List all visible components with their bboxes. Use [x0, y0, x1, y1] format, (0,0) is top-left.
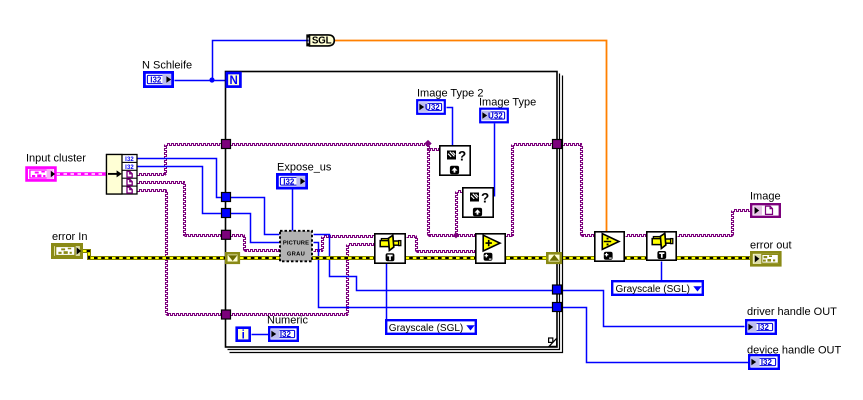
wire image Divide node to Cast node 2	[626, 235, 647, 237]
wire image Add node output to right tunnel T6	[506, 144, 553, 237]
indicator Numeric label	[267, 315, 308, 327]
wire left tunnel T3 to PICTURE GRAU input 2	[231, 214, 280, 243]
wire Cast node type input from enum Grayscale SGL	[386, 264, 388, 320]
svg-text:I32: I32	[125, 165, 134, 171]
wire unbundle row1 to left tunnel T2	[138, 159, 223, 198]
wire Input cluster to unbundle	[57, 172, 107, 176]
wire right tunnel T8 to device handle OUT	[563, 308, 749, 363]
svg-text:SGL: SGL	[312, 36, 332, 47]
svg-text:Numeric: Numeric	[267, 315, 308, 327]
svg-text:Image: Image	[750, 191, 781, 203]
svg-text:?: ?	[481, 191, 489, 206]
SGL conversion constant	[306, 34, 334, 46]
wire image unbundle row5 to left tunnel T5	[138, 190, 223, 316]
indicator driver handle OUT I32	[746, 320, 776, 334]
wire right tunnel T7 to driver handle OUT	[563, 291, 745, 327]
svg-text:I32: I32	[150, 76, 162, 85]
svg-text:N: N	[230, 75, 238, 87]
tunnel T3 handle in (left)	[222, 209, 231, 218]
svg-text:driver handle OUT: driver handle OUT	[747, 306, 837, 318]
svg-text:U32: U32	[425, 103, 440, 112]
IMAQ GetImageType node 1	[440, 146, 470, 175]
svg-text:error out: error out	[750, 240, 792, 252]
wire image PICTURE GRAU output to Cast node input 1	[314, 236, 375, 252]
wire image left tunnel T1 to IMAQ GetImageType node and Add node	[231, 140, 476, 239]
tunnel T2 handle in (left)	[222, 193, 231, 202]
svg-text:I32: I32	[283, 177, 295, 186]
svg-text:U32: U32	[488, 112, 503, 121]
wire error loop to error out	[562, 256, 750, 260]
wire image right tunnel T6 to Divide node	[563, 144, 595, 237]
svg-text:I32: I32	[761, 358, 773, 367]
wire image unbundle row3 to left tunnel T1	[138, 144, 223, 176]
indicator Image Type U32	[480, 109, 508, 123]
control N Schleife label	[142, 60, 192, 72]
svg-text:Image Type 2: Image Type 2	[417, 88, 483, 100]
indicator driver handle OUT label	[747, 306, 837, 318]
wire error through loop body	[240, 256, 546, 260]
svg-text:I32: I32	[758, 323, 770, 332]
subVI PICTURE GRAU	[280, 231, 312, 261]
control error In terminal	[53, 245, 82, 258]
tunnel T1 image in (left)	[222, 140, 231, 149]
indicator device handle OUT I32	[749, 355, 779, 369]
loop resize corner glyph	[549, 338, 557, 346]
wire image Cast node output to Add node input 2	[407, 236, 476, 253]
tunnel T5 image in (left low)	[222, 310, 231, 319]
IMAQ Cast Image node 2	[647, 232, 676, 260]
right shift register (error)	[547, 253, 561, 262]
svg-text:?: ?	[458, 149, 466, 164]
indicator Image label	[750, 191, 781, 203]
for loop frame	[226, 72, 563, 353]
svg-text:I32: I32	[280, 330, 292, 339]
wire PICTURE GRAU out1 to right tunnel T7	[314, 235, 553, 291]
control Expose_us I32	[277, 174, 306, 188]
enum constant Grayscale (SGL) 2	[612, 281, 703, 295]
unbundle cluster node	[107, 155, 138, 195]
wire iteration terminal to Numeric indicator	[252, 334, 269, 336]
wire N Schleife to loop count terminal	[175, 77, 227, 82]
indicator Numeric I32	[269, 327, 298, 341]
control Expose_us label	[277, 162, 332, 174]
IMAQ GetImageType node 2	[463, 188, 493, 217]
wire image unbundle row4 to left tunnel T4	[138, 182, 231, 237]
IMAQ Cast Image node 1	[375, 234, 405, 263]
tunnel T8 device handle out (right)	[553, 303, 562, 312]
indicator Image terminal	[751, 204, 780, 217]
enum constant Grayscale (SGL) 1	[386, 320, 476, 334]
svg-text:N Schleife: N Schleife	[142, 60, 192, 72]
indicator device handle OUT label	[747, 345, 841, 357]
svg-text:error In: error In	[52, 231, 87, 243]
left shift register (error)	[226, 253, 239, 262]
wire Cast node 2 type input from enum Grayscale SGL 2	[661, 262, 663, 281]
wire Expose_us to PICTURE GRAU top	[292, 190, 294, 231]
loop iteration terminal i	[237, 328, 250, 342]
tunnel T4 image in (left)	[222, 230, 231, 239]
wire error In to left shift register	[83, 251, 225, 258]
wire image left tunnel T4 to PICTURE GRAU input	[231, 235, 280, 252]
control error In label	[52, 231, 87, 243]
svg-text:Input cluster: Input cluster	[26, 153, 86, 165]
svg-text:Image Type: Image Type	[479, 97, 536, 109]
wire GetImageType node 2 to Image Type indicator	[494, 124, 496, 197]
IMAQ Add node	[476, 234, 505, 263]
indicator Image Type label	[479, 97, 536, 109]
control Input cluster terminal	[27, 168, 56, 181]
control N Schleife I32	[144, 72, 172, 86]
wire PICTURE GRAU out2 to right tunnel T8	[314, 243, 553, 308]
wire unbundle row2 to left tunnel T3	[138, 167, 223, 214]
svg-text:GRAU: GRAU	[287, 252, 305, 258]
wire image left tunnel T5 to Cast node input 2	[231, 244, 375, 316]
svg-text:i: i	[242, 330, 245, 342]
control Input cluster label	[26, 153, 86, 165]
wire left tunnel T2 to PICTURE GRAU input 1	[231, 198, 280, 235]
tunnel T6 image out (right)	[553, 140, 562, 149]
indicator Image Type 2 label	[417, 88, 483, 100]
loop count terminal N	[227, 73, 241, 87]
wire image Cast node 2 to Image indicator	[678, 210, 751, 237]
svg-text:PICTURE: PICTURE	[283, 241, 309, 247]
IMAQ Divide node	[595, 232, 624, 261]
svg-text:I32: I32	[125, 157, 134, 163]
svg-text:Grayscale (SGL): Grayscale (SGL)	[389, 323, 463, 334]
indicator Image Type 2 U32	[417, 100, 445, 114]
svg-text:Grayscale (SGL): Grayscale (SGL)	[616, 284, 690, 295]
tunnel T7 driver handle out (right)	[553, 285, 562, 294]
indicator error out terminal	[751, 252, 780, 265]
wire junction to SGL conversion	[213, 41, 309, 81]
indicator error out label	[750, 240, 792, 252]
wire SGL float to Divide node top	[335, 41, 607, 232]
wire GetImageType node to Image Type 2 indicator	[447, 108, 453, 146]
svg-text:Expose_us: Expose_us	[277, 162, 332, 174]
